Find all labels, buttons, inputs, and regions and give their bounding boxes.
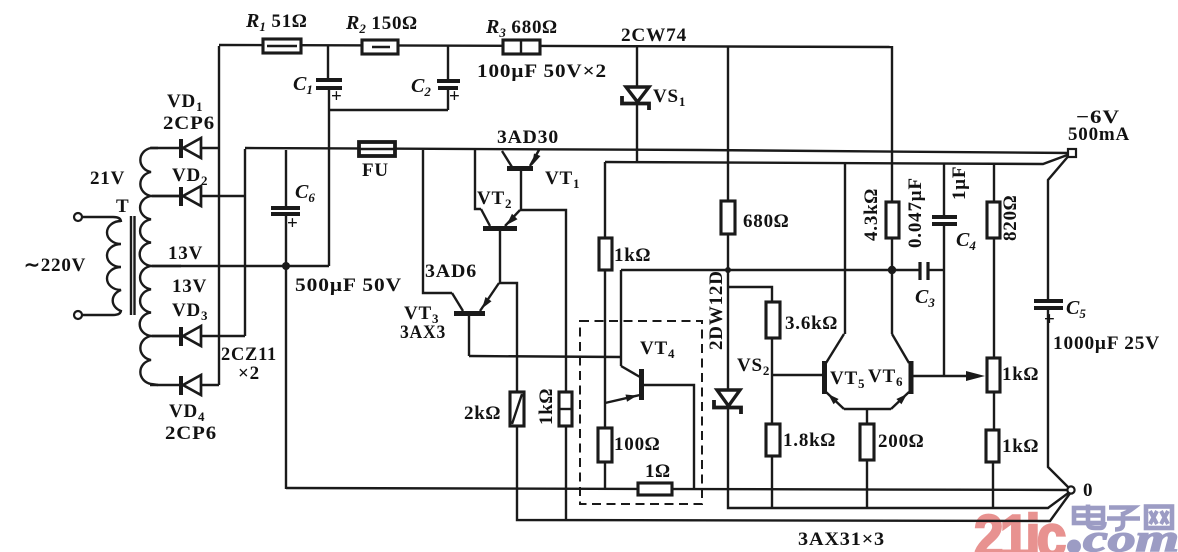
svg-text:820Ω: 820Ω (1000, 195, 1021, 241)
wire C1-C2 bottom link (328, 109, 448, 111)
wire VT5 collector column (844, 164, 846, 334)
svg-text:×2: ×2 (238, 363, 260, 384)
resistor 1.8k (766, 424, 780, 456)
svg-text:0.047μF: 0.047μF (905, 177, 926, 248)
svg-text:1000μF 25V: 1000μF 25V (1053, 333, 1160, 354)
wire VT5 base lead (772, 374, 822, 376)
svg-text:3AX3: 3AX3 (400, 322, 446, 343)
wire 680ohm bottom to y270 node (727, 234, 729, 390)
wire VT4 base lead (643, 385, 694, 489)
wire VT2 emitter node to 1k mid column (520, 210, 566, 392)
wire VD4 row (150, 384, 219, 386)
transformer T secondary winding (140, 148, 158, 385)
wire VT4 emitter to 100ohm (604, 403, 606, 428)
transformer primary terminal top (74, 213, 82, 221)
svg-text:R3 680Ω: R3 680Ω (485, 16, 558, 40)
terminal 0 (1067, 486, 1074, 493)
svg-text:+: + (1044, 309, 1056, 330)
fuse FU (359, 142, 395, 156)
zener VS1 (622, 87, 649, 110)
wire VD1-VD4 cathode column (218, 46, 220, 385)
svg-text:3AD30: 3AD30 (497, 127, 559, 148)
dashed regulator box (580, 321, 702, 504)
wire C4 bottom lead to VT6 base (943, 225, 945, 376)
svg-text:4.3kΩ: 4.3kΩ (861, 188, 882, 241)
svg-text:T: T (116, 196, 129, 217)
wire error node horizontal y270 (621, 269, 919, 271)
capacitor C6 (271, 208, 300, 234)
watermark zi character (1107, 508, 1140, 530)
svg-text:0: 0 (1083, 480, 1093, 501)
svg-text:2DW12D: 2DW12D (706, 270, 727, 350)
resistor 2k (510, 392, 524, 426)
wire VD3 row (152, 335, 245, 337)
wire 1.8k bottom lead (771, 456, 773, 508)
svg-text:FU: FU (362, 160, 389, 181)
wire secondary tap VD2 (151, 195, 181, 197)
resistor 3.6k (766, 302, 780, 338)
resistor R3 (503, 40, 540, 54)
svg-text:1kΩ: 1kΩ (536, 388, 557, 425)
wire center tap to C6 node (152, 265, 329, 267)
svg-text:1μF: 1μF (949, 166, 970, 200)
terminal -6V (1068, 149, 1076, 157)
node C6 junction dot (282, 262, 290, 270)
wire 1k top lead (604, 162, 606, 238)
svg-text:100μF 50V×2: 100μF 50V×2 (477, 61, 607, 82)
wire C6 bottom to 0 rail (285, 216, 287, 489)
wire secondary tap VD3 (151, 335, 181, 337)
svg-text:R2 150Ω: R2 150Ω (345, 12, 418, 36)
watermark wang character (1146, 507, 1172, 529)
svg-text:13V: 13V (172, 276, 207, 297)
wire VS1 lower lead (636, 104, 638, 163)
resistor 680ohm (721, 201, 735, 234)
svg-text:3.6kΩ: 3.6kΩ (785, 313, 838, 334)
svg-text:1kΩ: 1kΩ (614, 245, 651, 266)
diode VD2 (181, 186, 201, 206)
capacitor C1 (316, 80, 343, 107)
wire 820ohm to 1k pot column (993, 238, 995, 358)
svg-text:21ic: 21ic (974, 503, 1065, 552)
wire 200ohm bottom lead (866, 460, 868, 508)
diode VD4 (181, 375, 201, 395)
wire VT6 base to pot wiper (912, 375, 966, 377)
resistor 1k lower (986, 430, 999, 462)
wire 680ohm / VS2 column (727, 46, 729, 201)
svg-text:1kΩ: 1kΩ (1002, 364, 1039, 385)
wire VT1 base lead (520, 170, 522, 210)
svg-text:+: + (287, 213, 299, 234)
transistor VT2 (481, 209, 520, 229)
resistor 100ohm (598, 428, 612, 462)
svg-text:500μF 50V: 500μF 50V (295, 275, 402, 296)
wire C3 right lead (929, 269, 944, 271)
wire 4.3k bottom to C3 node (891, 238, 893, 334)
svg-text:1Ω: 1Ω (645, 461, 671, 482)
wire main unregulated/output rail (245, 148, 1071, 153)
wire top rail (219, 45, 892, 47)
svg-text:2CP6: 2CP6 (165, 423, 217, 444)
wire 100ohm bottom lead (604, 462, 606, 489)
capacitor C4 (932, 217, 957, 224)
svg-text:1kΩ: 1kΩ (1002, 436, 1039, 457)
transformer core (131, 216, 135, 315)
wire 3.6k top lead from VS2 column (728, 287, 772, 302)
wire C1 bottom column down to center-tap line (328, 89, 330, 266)
svg-text:100Ω: 100Ω (614, 434, 660, 455)
resistor 200ohm (860, 424, 874, 460)
resistor 4.3k (886, 202, 899, 238)
resistor 820ohm (987, 202, 1000, 238)
svg-text:2kΩ: 2kΩ (464, 403, 501, 424)
wire C5 bottom lead to 0 terminal (1048, 310, 1071, 490)
wire 3.6k to 1.8k column (771, 338, 773, 424)
svg-text:3AD6: 3AD6 (425, 261, 477, 282)
wire C1 top lead (327, 46, 329, 78)
svg-text:2CZ11: 2CZ11 (221, 344, 277, 365)
watermark dian character (1074, 505, 1105, 529)
svg-text:500mA: 500mA (1068, 124, 1130, 145)
svg-text:+: + (331, 86, 343, 107)
wire between the two 1k resistors (993, 392, 995, 430)
wire 1k mid column bottom (565, 426, 567, 520)
svg-text:21V: 21V (90, 168, 125, 189)
transformer T primary winding (82, 217, 121, 315)
node 680ohm-VS2 junction (725, 267, 731, 273)
wire VT3 collector to rail (423, 150, 452, 293)
wire VD2-VD3 cathode column (244, 149, 246, 336)
resistor 1k sampling (599, 238, 612, 270)
svg-text:680Ω: 680Ω (743, 211, 789, 232)
svg-text:3AX31×3: 3AX31×3 (798, 529, 885, 550)
transistor VT3 (452, 283, 499, 356)
wire VT3 base to VT4 collector (469, 356, 621, 357)
wire C5 top lead (1048, 153, 1071, 300)
wire C2 top lead (447, 46, 449, 79)
resistor R2 (362, 40, 398, 54)
watermark .com (1067, 518, 1178, 552)
capacitor C3 (920, 262, 928, 280)
resistor 1ohm (638, 483, 672, 495)
diode VD1 (181, 138, 201, 158)
svg-text:∼220V: ∼220V (24, 255, 86, 276)
diode VD3 (181, 326, 201, 346)
wire VS2 bottom line to 0 terminal (728, 408, 1071, 508)
wire C6 top lead (285, 150, 287, 207)
svg-text:R1 51Ω: R1 51Ω (245, 10, 307, 34)
wire 820ohm top lead (993, 164, 995, 202)
wire VS1 branch (636, 46, 638, 87)
transformer primary terminal bottom (74, 311, 82, 319)
svg-text:2CP6: 2CP6 (163, 113, 215, 134)
resistor 1k mid (559, 392, 572, 426)
svg-text:13V: 13V (168, 243, 203, 264)
wire 1k sampling column to VT4 emitter (604, 270, 606, 403)
wire VT2 collector to rail (475, 150, 481, 209)
resistor 1k pot upper (987, 358, 1000, 392)
wire secondary center tap (151, 265, 181, 267)
wire C4 top lead (943, 164, 945, 216)
node 4.3k C3 VT6 junction (888, 266, 896, 274)
zener VS2 (714, 390, 741, 414)
resistor R1 (263, 39, 301, 53)
wire 200ohm top lead (866, 409, 868, 424)
wire C2 bottom lead (447, 90, 449, 110)
wire 0V bottom rail (286, 488, 1071, 490)
wire second output rail (605, 154, 1070, 164)
capacitor C2 (437, 81, 461, 107)
wire error node down to VT4 collector (620, 270, 622, 357)
svg-text:2CW74: 2CW74 (621, 25, 687, 46)
wire 4.3k column from top rail (891, 46, 893, 202)
wire VD2 row (152, 195, 245, 197)
wire lower 1k bottom to VS2 line (992, 462, 994, 508)
svg-text:com: com (1083, 518, 1178, 552)
wire VT5 VT6 emitter link (844, 408, 891, 410)
svg-text:1.8kΩ: 1.8kΩ (783, 430, 836, 451)
transistor VT1 (502, 150, 541, 169)
transistor VT6 (891, 334, 911, 409)
svg-text:+: + (449, 86, 461, 107)
svg-text:200Ω: 200Ω (878, 431, 924, 452)
wire VD1 row (150, 147, 219, 149)
wire 2k 1k bottom line to 0 terminal (517, 426, 1071, 521)
capacitor C5 (1034, 301, 1063, 330)
pot wiper arrow (966, 371, 985, 381)
transistor VT5 (825, 334, 845, 409)
transistor VT4 (605, 357, 642, 403)
wire VT2 base to VT3 emitter node (500, 230, 517, 392)
